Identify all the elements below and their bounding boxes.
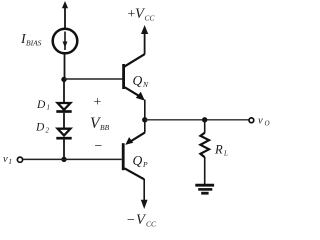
wire: R_L tap down to resistor [204, 120, 206, 133]
wire: current source to node A [64, 54, 66, 81]
current source I_BIAS [53, 29, 78, 54]
node C (output junction dot) [142, 117, 147, 122]
svg-text:2: 2 [46, 127, 50, 135]
svg-text:Q: Q [133, 73, 143, 88]
svg-text:−: − [94, 139, 103, 154]
node A (junction dot, bias top) [61, 77, 66, 82]
terminal v_I (open circle) [17, 157, 22, 162]
wire: v_I to Q_P base [23, 158, 122, 160]
svg-text:CC: CC [146, 220, 157, 229]
svg-text:N: N [142, 80, 149, 89]
diode D1 [56, 103, 71, 112]
svg-text:−: − [126, 213, 135, 228]
svg-text:O: O [265, 120, 270, 128]
label Q_P [133, 153, 149, 169]
svg-text:BB: BB [100, 123, 110, 132]
diode D2 [56, 129, 71, 139]
label D2 [35, 122, 50, 135]
svg-text:Q: Q [133, 153, 143, 168]
wire: Q_P collector to -VCC arrow [141, 179, 148, 209]
wire: top arrow of current source branch [62, 1, 68, 28]
svg-text:D: D [36, 99, 46, 111]
wire: D2 to node B [63, 139, 65, 159]
wire: node A to diode D1 [63, 79, 65, 103]
svg-text:D: D [35, 122, 45, 134]
label I_BIAS [20, 32, 42, 48]
svg-text:+: + [93, 95, 102, 110]
svg-text:v: v [258, 116, 263, 127]
resistor R_L [200, 133, 209, 157]
ground [195, 185, 214, 193]
svg-text:CC: CC [145, 14, 156, 23]
label -V_CC [126, 212, 157, 229]
wire: output line to terminal [145, 119, 249, 121]
label - (V_BB minus) [94, 139, 103, 154]
label v_I [3, 154, 12, 166]
wire: D1 to D2 [63, 113, 65, 129]
wire: resistor to ground [204, 157, 206, 185]
svg-text:1: 1 [47, 104, 51, 112]
wire: output node down to Q_P emitter [144, 120, 146, 133]
transistor Q_P [122, 133, 145, 180]
transistor Q_N [122, 54, 145, 100]
svg-text:R: R [214, 143, 223, 157]
label + (V_BB plus) [93, 95, 102, 110]
label R_L [214, 143, 228, 158]
wire: +VCC rail with arrow [141, 25, 148, 55]
label v_O [258, 116, 270, 128]
svg-text:L: L [223, 150, 228, 158]
label Q_N [133, 73, 150, 89]
label +V_CC [127, 6, 156, 23]
label V_BB [90, 115, 110, 132]
wire: Q_N emitter to output node [144, 100, 146, 121]
node D (junction dot, R_L tap) [202, 117, 207, 122]
svg-text:P: P [142, 160, 148, 169]
svg-text:BIAS: BIAS [26, 39, 42, 48]
node B (junction dot, input line) [61, 157, 66, 162]
label D1 [36, 99, 50, 112]
wire: node A to Q_N base [64, 78, 123, 80]
terminal v_O (open circle) [249, 118, 254, 123]
svg-text:v: v [3, 154, 8, 165]
